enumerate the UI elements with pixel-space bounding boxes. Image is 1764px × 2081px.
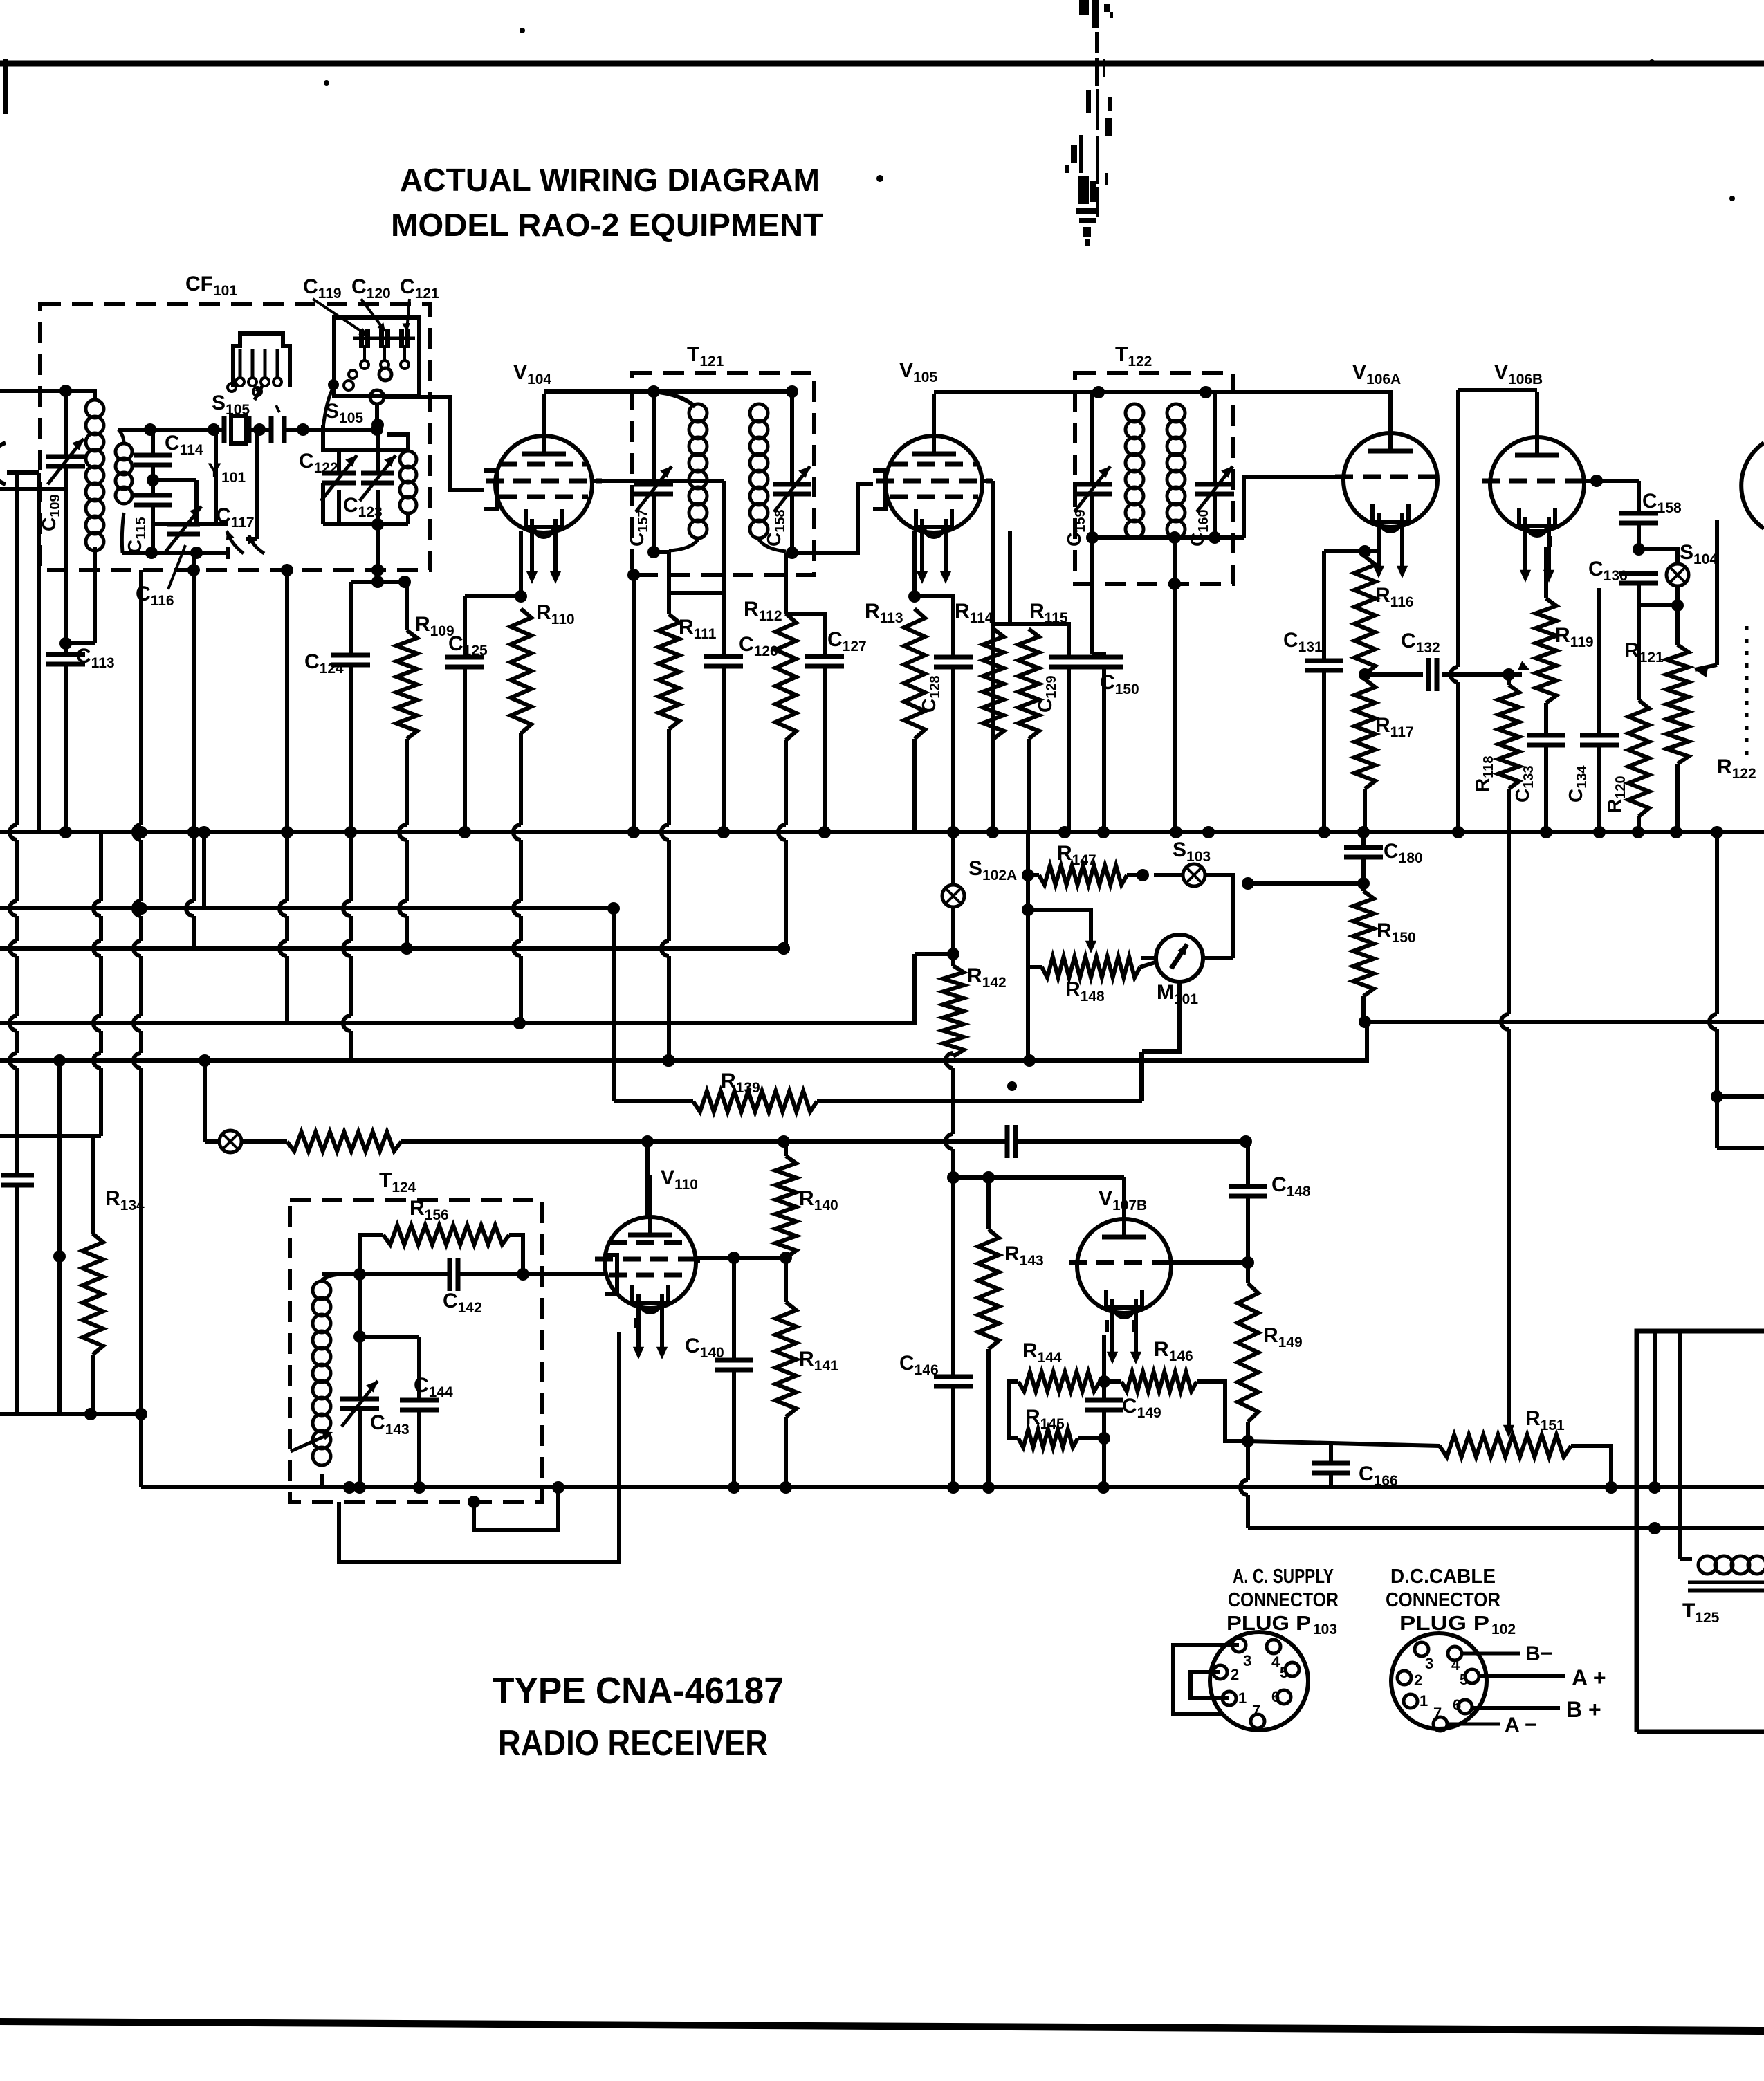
lamp S103 bbox=[1183, 864, 1205, 886]
wire C127 bbox=[786, 614, 825, 657]
coil T121 primary bbox=[689, 404, 707, 422]
resistor R146 bbox=[1121, 1372, 1197, 1391]
junction on T124 box bottom bbox=[468, 1496, 480, 1508]
junction on B9 bbox=[552, 1481, 564, 1494]
wire R113 bottom bbox=[912, 739, 917, 832]
junction bbox=[1137, 869, 1149, 881]
tube V110 bbox=[605, 1217, 696, 1308]
junction on B1 bbox=[1357, 826, 1370, 838]
wire S102A bottom bbox=[951, 907, 955, 966]
wire T124 coil bottom bbox=[320, 1474, 324, 1487]
wire R140 top bbox=[784, 1142, 788, 1156]
wire R147 right lead bbox=[1127, 873, 1143, 877]
capacitor C128 bbox=[934, 655, 973, 660]
svg-text:2: 2 bbox=[1231, 1666, 1239, 1683]
bus B4 bbox=[0, 954, 915, 1023]
junction on B9 bbox=[780, 1481, 792, 1494]
wire C125 bbox=[463, 596, 467, 657]
wire R134 bottom bbox=[91, 1355, 95, 1414]
resistor R137 bbox=[287, 1132, 401, 1151]
tube V107A partial at right edge bbox=[1741, 443, 1764, 529]
wire T125 inner v2 bbox=[1678, 1331, 1682, 1559]
resistor R134 bbox=[82, 1234, 103, 1355]
bus B5 bbox=[0, 1022, 1367, 1061]
junction bbox=[398, 576, 411, 588]
page top border line bbox=[0, 61, 1764, 67]
wire C124 bbox=[349, 665, 353, 832]
junction bbox=[1359, 668, 1371, 681]
capacitor C-left bbox=[1, 1173, 34, 1178]
capacitor C166 bbox=[1312, 1461, 1350, 1466]
wire C126 bbox=[669, 593, 724, 657]
resistor R115 bbox=[1018, 629, 1039, 739]
wire V105 cathode left leg bbox=[912, 531, 917, 596]
wire C150 top bbox=[1092, 654, 1104, 657]
svg-text:A. C. SUPPLY: A. C. SUPPLY bbox=[1233, 1566, 1334, 1588]
wire loop to B8 bbox=[1139, 1052, 1143, 1101]
wire V106B plate rail bbox=[1458, 388, 1537, 392]
wire V110 grid row exit bbox=[696, 1258, 700, 1263]
capacitor C180 bbox=[1344, 845, 1383, 850]
resistor R139 bbox=[693, 1091, 817, 1112]
junction bbox=[1242, 1435, 1254, 1447]
svg-text:7: 7 bbox=[1433, 1705, 1442, 1722]
P102 pin 6 bbox=[1458, 1700, 1472, 1714]
transformer box T122 bbox=[1075, 373, 1233, 584]
junction bbox=[1648, 1522, 1661, 1534]
wire R156 right bbox=[509, 1235, 523, 1272]
junction on B1 bbox=[717, 826, 730, 838]
svg-text:6: 6 bbox=[1453, 1696, 1461, 1714]
wire R119 top bbox=[1544, 547, 1548, 598]
wire S104 branch bbox=[1639, 549, 1678, 564]
wire V105 cathode right leg bbox=[1008, 531, 1012, 624]
resistor R116 bbox=[1354, 556, 1375, 675]
svg-text:3: 3 bbox=[1425, 1655, 1433, 1672]
wire coil out top bbox=[387, 434, 408, 451]
wire plate link y1702 bbox=[953, 1175, 1124, 1180]
junction bbox=[1022, 869, 1034, 881]
wire M101 left bbox=[1141, 956, 1156, 960]
resistor R150 bbox=[1353, 891, 1374, 996]
svg-text:102: 102 bbox=[1491, 1622, 1516, 1638]
connector plug P103 bbox=[1210, 1632, 1308, 1730]
switch S105b lever bbox=[323, 387, 333, 428]
capacitor C126 bbox=[704, 654, 743, 659]
switch contacts under trimmers bbox=[363, 345, 366, 360]
junction on B9 bbox=[413, 1481, 425, 1494]
wire R146 right loop bbox=[1197, 1382, 1248, 1441]
svg-text:A −: A − bbox=[1505, 1714, 1536, 1736]
bus B1 (main ground/supply rail) bbox=[0, 830, 1764, 834]
capacitor C114 bbox=[134, 453, 172, 458]
wire C128 bbox=[915, 596, 953, 657]
power transformer T125 box bbox=[1637, 1331, 1764, 1732]
resistor R120 col top bbox=[1637, 605, 1641, 700]
wire x1804 to B10 bbox=[1246, 1441, 1250, 1480]
wire L2 bottom bbox=[122, 513, 124, 553]
wire R114 top bbox=[991, 624, 995, 629]
wire C144 leads bbox=[417, 1337, 421, 1400]
wire C149 col bottom bbox=[1102, 1438, 1106, 1487]
resistor R142 bbox=[943, 966, 964, 1056]
wire V106A plate bbox=[1389, 390, 1393, 433]
wire C158t bbox=[790, 392, 794, 484]
wire R114 bottom bbox=[991, 739, 995, 832]
wire V105 plate bbox=[932, 394, 936, 436]
wire V107B cathode legs bbox=[1105, 1320, 1109, 1332]
wire V105 grid exit bbox=[982, 479, 993, 483]
wire R145 right bbox=[1078, 1436, 1104, 1440]
T125 core lines bbox=[1688, 1581, 1764, 1584]
wire left col x146 bbox=[99, 832, 103, 901]
junction on B1 bbox=[59, 826, 72, 838]
junction on B5 bbox=[53, 1054, 66, 1067]
junction bbox=[1086, 531, 1099, 544]
wire left col x204 bbox=[139, 570, 143, 825]
wire T121 sec out bbox=[792, 484, 873, 553]
capacitor C144 bbox=[400, 1398, 439, 1403]
junction on B5 bbox=[662, 1054, 674, 1067]
junction bbox=[1590, 475, 1603, 487]
capacitor C146 bbox=[934, 1375, 973, 1379]
capacitor C150 bbox=[1085, 655, 1123, 660]
wire rail2 bbox=[122, 551, 228, 555]
wire C114 bbox=[151, 430, 155, 455]
wire R144/R145 left loop bbox=[1009, 1382, 1018, 1438]
capacitor C115 bbox=[134, 493, 172, 498]
speck bbox=[520, 28, 525, 33]
wire C180 bbox=[1361, 832, 1366, 847]
junction on B9 bbox=[1097, 1481, 1110, 1494]
wire trimmer bottom rail bbox=[323, 522, 408, 526]
potentiometer R151 bbox=[1440, 1435, 1571, 1457]
bus B2 bbox=[0, 906, 614, 910]
coil L2 bbox=[118, 430, 124, 443]
transformer box T124 bbox=[290, 1200, 542, 1502]
svg-text:5: 5 bbox=[1280, 1664, 1288, 1681]
wire R147 left col bbox=[1026, 832, 1030, 967]
tube V106A bbox=[1343, 433, 1437, 527]
lamp S102B bbox=[219, 1130, 241, 1153]
lamp S104 bbox=[1666, 564, 1689, 586]
wire cathode rail V104 bbox=[465, 594, 521, 598]
junction bbox=[1092, 386, 1105, 398]
wire switch pole to grid bbox=[385, 397, 484, 490]
P103 pin 6 bbox=[1277, 1690, 1291, 1704]
series capacitor after Y101 bbox=[269, 416, 274, 443]
junction on B9 bbox=[982, 1481, 995, 1494]
wire coil bottom bbox=[93, 547, 97, 643]
wire T122 out bbox=[1215, 535, 1244, 540]
junction on B9 bbox=[728, 1481, 740, 1494]
wire R121 wiper bbox=[1715, 520, 1719, 665]
junction on B5 bbox=[1023, 1054, 1036, 1067]
wire plate top rail 1 bbox=[544, 389, 792, 394]
lamp S102A bbox=[942, 885, 964, 907]
wire x520 col bbox=[358, 1274, 362, 1337]
wire R142 bottom bbox=[951, 1053, 955, 1056]
wire C150 bottom bbox=[1102, 667, 1106, 832]
wire R139 left riser bbox=[612, 908, 616, 1101]
svg-text:6: 6 bbox=[1271, 1688, 1280, 1705]
P102 pin 5 bbox=[1465, 1669, 1479, 1683]
wire C122/C123 top rail bbox=[323, 425, 339, 473]
coil T122 primary bbox=[1126, 404, 1143, 422]
socket plug Y101 holder bbox=[233, 333, 290, 387]
scanner smudge artifact bbox=[1065, 0, 1113, 246]
wire V104 cathode left leg bbox=[519, 531, 523, 596]
trimmer C122 bbox=[322, 471, 356, 476]
wire y1642 stub bbox=[0, 1134, 101, 1138]
junction bbox=[1242, 1256, 1254, 1269]
wire R110 bottom bbox=[519, 733, 523, 825]
wire C136 bottom bbox=[1637, 583, 1641, 605]
wire R151 feed bbox=[1248, 1441, 1440, 1446]
wire x2482 drop bbox=[1715, 832, 1719, 1014]
wire T121 pri top bbox=[654, 392, 695, 407]
trimmer C109 bbox=[46, 455, 85, 459]
wire R148 left bbox=[1028, 965, 1042, 969]
wire y902 rail bbox=[993, 622, 1029, 626]
junction on B1 bbox=[1097, 826, 1110, 838]
wire V104 cathode right leg bbox=[632, 574, 636, 832]
wire R148 arrow feed bbox=[1028, 910, 1091, 941]
leader C120 bbox=[361, 299, 385, 331]
capacitor C132 bbox=[1426, 658, 1431, 691]
coil L-ant bbox=[86, 400, 104, 418]
capacitor C148 bbox=[1229, 1184, 1267, 1189]
wire x295 col bbox=[202, 832, 206, 908]
P103 pin 4 bbox=[1267, 1640, 1280, 1653]
junction bbox=[1098, 1432, 1110, 1445]
wire R111 top bbox=[667, 552, 671, 614]
wire R150 bottom bbox=[1361, 996, 1366, 1022]
svg-text:7: 7 bbox=[1252, 1702, 1260, 1719]
junction bbox=[1357, 877, 1370, 890]
svg-text:1: 1 bbox=[1238, 1689, 1247, 1707]
wire C143 leads bbox=[358, 1337, 362, 1399]
wire R144-R146 link bbox=[1100, 1379, 1121, 1384]
bus B10 bbox=[1248, 1526, 1764, 1530]
resistor R112 bbox=[775, 614, 796, 740]
wire V104 grid exit bbox=[592, 479, 724, 483]
junction bbox=[353, 1481, 366, 1494]
P103 outer bracket bbox=[1173, 1645, 1239, 1714]
wire antenna input top bbox=[0, 389, 66, 393]
wire T124 feedback jog bbox=[474, 1487, 558, 1530]
junction on B1 bbox=[1452, 826, 1464, 838]
junction on B9 bbox=[947, 1481, 959, 1494]
svg-text:5: 5 bbox=[1460, 1671, 1468, 1688]
wire C116 col bbox=[192, 553, 196, 570]
wire left col x27 bbox=[15, 473, 19, 825]
wire R121 top bbox=[1675, 605, 1680, 645]
P103 pin 1 bbox=[1222, 1692, 1236, 1705]
wire C148 col bbox=[1246, 1142, 1250, 1186]
junction bbox=[947, 948, 959, 960]
capacitor C149 bbox=[1085, 1398, 1123, 1403]
resistor R111 bbox=[659, 614, 679, 729]
junction on B4 bbox=[513, 1017, 526, 1029]
bus B3 bbox=[0, 946, 784, 951]
junction bbox=[947, 1171, 959, 1184]
capacitor C158 bbox=[1619, 511, 1658, 516]
junction bbox=[353, 1268, 366, 1281]
wire C150 column bbox=[1090, 538, 1094, 654]
wire trimmer tops bbox=[339, 448, 378, 452]
resistor R113 bbox=[904, 609, 925, 739]
wire R120 bottom bbox=[1637, 816, 1641, 832]
wire V110 cathode legs bbox=[634, 1318, 638, 1328]
junction bbox=[1671, 599, 1684, 612]
wire R112 bottom bbox=[784, 740, 788, 825]
wire R109 bottom bbox=[405, 739, 409, 825]
crystal Y101 bbox=[222, 416, 227, 443]
wire B- lead bbox=[1462, 1652, 1520, 1656]
wire R115 bottom bbox=[1027, 739, 1031, 832]
arrow C117 bbox=[227, 531, 244, 553]
transformer box T121 bbox=[632, 373, 814, 575]
junction on B1 bbox=[1670, 826, 1682, 838]
coil T125 bbox=[1698, 1556, 1716, 1574]
wire plate top rail 2 bbox=[934, 390, 1391, 394]
junction bbox=[322, 429, 324, 430]
wire V107B grid exit bbox=[1172, 1260, 1248, 1265]
coil CF output bbox=[400, 451, 416, 468]
meter M101 bbox=[1156, 935, 1203, 982]
junction on B3 bbox=[401, 942, 413, 955]
ganged-control dotted link bbox=[1745, 626, 1749, 758]
potentiometer R148 bbox=[1042, 957, 1140, 978]
resistor R117 bbox=[1354, 679, 1375, 789]
wire R112 top bbox=[784, 553, 788, 614]
wire R119-C133 bbox=[1544, 703, 1548, 735]
tube V105 bbox=[885, 436, 982, 533]
wire C166 leads bbox=[1329, 1444, 1333, 1463]
junction bbox=[1098, 1375, 1110, 1388]
P102 pin 4 bbox=[1448, 1647, 1462, 1660]
bus B8 (R139 line) bbox=[614, 1099, 693, 1103]
wire x312 drop bbox=[214, 430, 218, 524]
wire C157 bbox=[652, 392, 656, 484]
wire T122 bottom rail bbox=[1092, 535, 1215, 540]
wire T122 tap to B1 bbox=[1173, 584, 1177, 832]
junction on B1 bbox=[818, 826, 831, 838]
junction on B1 bbox=[459, 826, 471, 838]
crystal filter box CF101 bbox=[40, 304, 430, 570]
wire R151 right bbox=[1571, 1446, 1611, 1487]
wire coil top link bbox=[66, 391, 95, 400]
trimmer C123 bbox=[361, 471, 394, 476]
P102 pin 3 bbox=[1415, 1642, 1428, 1656]
resistor R119 bbox=[1536, 598, 1556, 703]
svg-text:2: 2 bbox=[1414, 1671, 1422, 1689]
svg-text:A +: A + bbox=[1572, 1665, 1606, 1690]
capacitor C147 bbox=[1005, 1125, 1010, 1158]
resistor R143 bbox=[978, 1229, 999, 1349]
junction bbox=[371, 518, 384, 531]
wire R147 col to B5 bbox=[1026, 967, 1030, 1061]
wire A- lead bbox=[1447, 1723, 1500, 1726]
junction on B1 bbox=[1711, 826, 1723, 838]
wire x284 drop bbox=[194, 480, 199, 524]
junction on B1 bbox=[1202, 826, 1215, 838]
junction bbox=[908, 590, 921, 603]
wire C140 leads bbox=[732, 1258, 736, 1360]
wire y1932 link bbox=[360, 1335, 419, 1339]
potentiometer R121 bbox=[1666, 645, 1689, 764]
resistor R149 bbox=[1238, 1283, 1258, 1422]
capacitor C133 bbox=[1527, 733, 1565, 738]
wire x415 col bbox=[285, 570, 289, 832]
wire R141 leads bbox=[784, 1258, 788, 1302]
junction bbox=[145, 547, 158, 559]
junction bbox=[353, 1330, 366, 1343]
wire y1585 stub bbox=[1717, 1094, 1764, 1099]
junction bbox=[515, 590, 527, 603]
resistor R110 bbox=[511, 609, 531, 733]
junction on B1 bbox=[198, 826, 210, 838]
trimmer C157 bbox=[634, 482, 673, 487]
wire grid drop bbox=[722, 481, 726, 593]
wire C113 bottom bbox=[64, 643, 68, 654]
junction bbox=[144, 423, 156, 436]
wire C146 leads bbox=[951, 1177, 955, 1377]
wire A+ lead bbox=[1479, 1674, 1565, 1678]
svg-text:1: 1 bbox=[1420, 1692, 1428, 1709]
P103 pin 5 bbox=[1285, 1662, 1299, 1676]
P102 pin 7 bbox=[1433, 1717, 1447, 1731]
junction on B1 bbox=[1058, 826, 1071, 838]
junction on B7 bbox=[641, 1135, 654, 1148]
wire y1660 stub bbox=[1717, 1146, 1764, 1150]
wire V110 cathode exit bbox=[617, 1332, 621, 1337]
bus B6 bbox=[1367, 1020, 1764, 1024]
wire y694 link bbox=[153, 478, 196, 482]
resistor R141 bbox=[775, 1302, 796, 1417]
open circle contact bbox=[349, 370, 357, 378]
wire C109 leads bbox=[64, 391, 68, 457]
wire C180 left link bbox=[1248, 881, 1363, 886]
trimmer C143 bbox=[340, 1397, 379, 1402]
P103 pin 2 bbox=[1213, 1665, 1227, 1679]
junction bbox=[728, 1252, 740, 1264]
resistor R118 bbox=[1498, 685, 1519, 789]
trimmer C160 bbox=[1195, 482, 1234, 487]
wire C134 bbox=[1597, 588, 1601, 735]
tube V104 bbox=[495, 436, 592, 533]
junction bbox=[371, 419, 384, 431]
connector plug P102 bbox=[1391, 1633, 1487, 1729]
junction on B1 bbox=[344, 826, 357, 838]
wire V106B plate bbox=[1535, 392, 1539, 437]
svg-text:CONNECTOR: CONNECTOR bbox=[1228, 1589, 1339, 1611]
left edge terminal fragment bbox=[0, 443, 6, 484]
wire S104 bottom rail bbox=[1639, 603, 1678, 607]
svg-text:MODEL RAO-2 EQUIPMENT: MODEL RAO-2 EQUIPMENT bbox=[391, 207, 823, 243]
junction on box bottom bbox=[371, 564, 384, 576]
grid tab V104 bbox=[484, 470, 497, 509]
wire AVC long drop bbox=[1507, 832, 1511, 1014]
wire T124 coil top bbox=[322, 1274, 360, 1281]
wire C149 leads bbox=[1102, 1382, 1106, 1400]
resistor R145 bbox=[1018, 1429, 1078, 1447]
junction bbox=[59, 637, 72, 650]
wire C115 down bbox=[151, 505, 155, 553]
wire x372 drop bbox=[255, 430, 259, 539]
wire R118 top bbox=[1507, 675, 1511, 685]
